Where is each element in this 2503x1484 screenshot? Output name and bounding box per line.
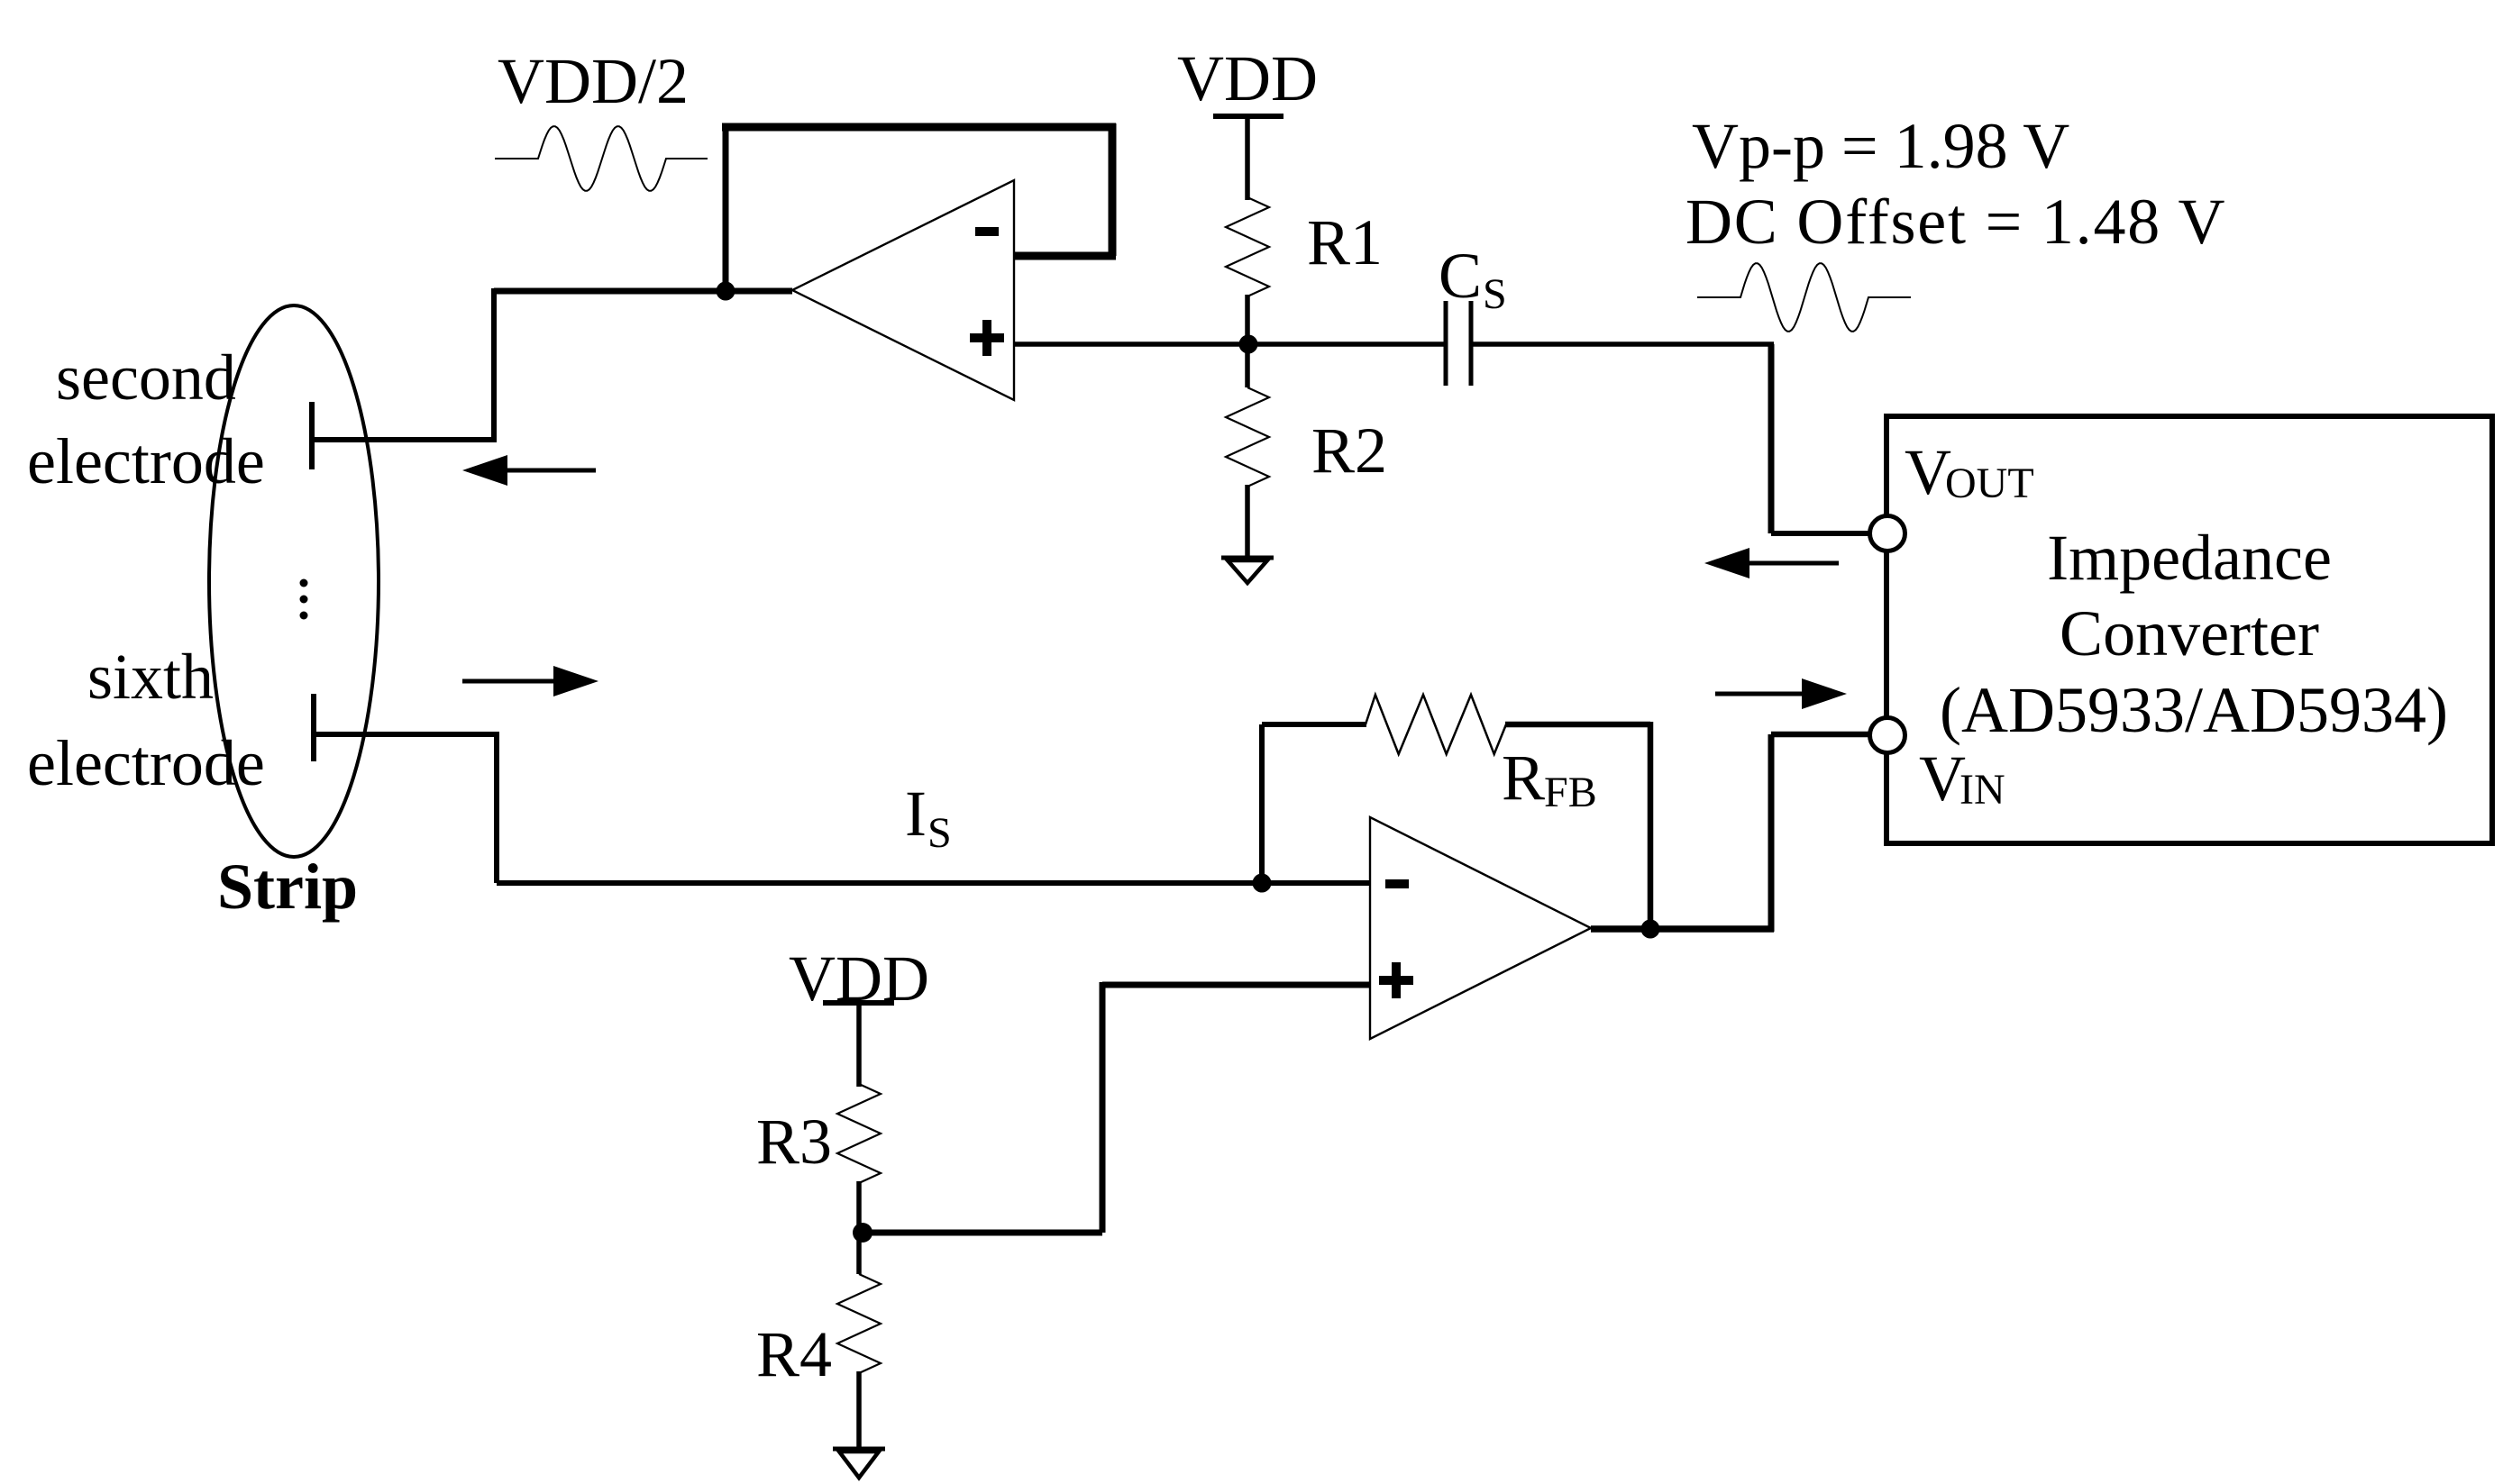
svg-text:R4: R4 xyxy=(756,1318,832,1390)
svg-text:Strip: Strip xyxy=(217,851,358,923)
svg-text:Converter: Converter xyxy=(2060,597,2319,669)
svg-text:I: I xyxy=(905,778,927,850)
svg-text:Impedance: Impedance xyxy=(2047,522,2332,594)
svg-text:OUT: OUT xyxy=(1945,460,2034,507)
svg-text:R3: R3 xyxy=(756,1106,832,1178)
svg-text:FB: FB xyxy=(1544,769,1597,816)
svg-text:electrode: electrode xyxy=(27,425,265,497)
svg-text:electrode: electrode xyxy=(27,727,265,799)
svg-text:VDD/2: VDD/2 xyxy=(498,45,689,117)
svg-text:VDD: VDD xyxy=(789,942,929,1015)
svg-text:R: R xyxy=(1502,742,1545,814)
svg-text:DC Offset = 1.48 V: DC Offset = 1.48 V xyxy=(1685,186,2226,258)
svg-text:Vp-p = 1.98 V: Vp-p = 1.98 V xyxy=(1692,110,2069,182)
svg-text:(AD5933/AD5934): (AD5933/AD5934) xyxy=(1940,674,2448,746)
svg-text:sixth: sixth xyxy=(87,641,214,713)
svg-text:IN: IN xyxy=(1959,766,2005,814)
svg-text:C: C xyxy=(1439,240,1482,312)
svg-text:S: S xyxy=(927,809,952,857)
svg-text:S: S xyxy=(1483,270,1507,318)
svg-text:R2: R2 xyxy=(1311,414,1387,487)
svg-text:R1: R1 xyxy=(1307,206,1383,278)
svg-text:VDD: VDD xyxy=(1177,42,1318,114)
svg-text:second: second xyxy=(56,341,236,414)
